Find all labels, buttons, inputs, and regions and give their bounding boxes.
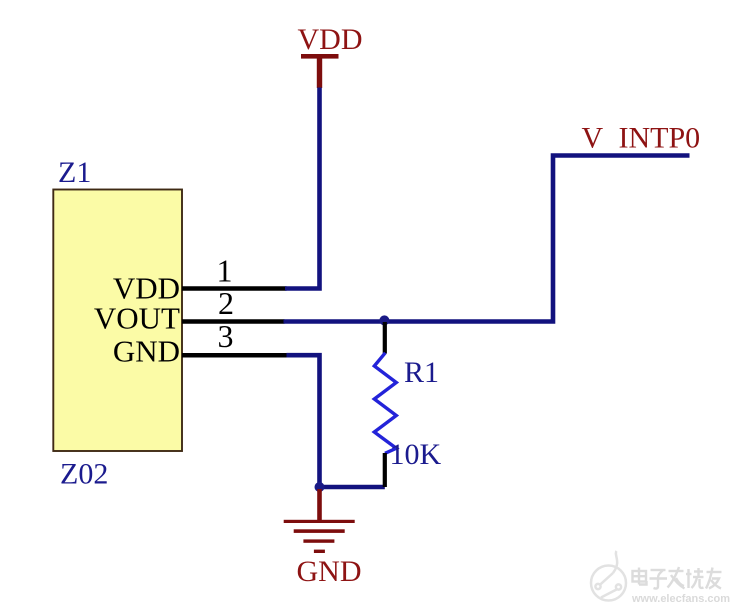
pin 3 (182, 318, 287, 355)
junction dot ground node (315, 482, 325, 492)
svg-text:V: V (582, 122, 604, 155)
ground bar 3 (303, 539, 334, 542)
watermark CJK glyph 2 (zi) (650, 570, 668, 589)
ground stem (317, 489, 322, 520)
svg-text:GND: GND (297, 555, 362, 588)
svg-text:Z02: Z02 (60, 458, 108, 491)
ground bar 1 (284, 520, 355, 523)
watermark CJK glyph 1 (dian) (633, 568, 647, 585)
svg-text:2: 2 (218, 285, 234, 321)
svg-text:R1: R1 (404, 356, 439, 389)
svg-text:VDD: VDD (298, 23, 363, 56)
watermark CJK glyph 5 (you) (706, 568, 722, 589)
svg-text:VOUT: VOUT (94, 301, 180, 336)
power VDD stem (317, 56, 322, 88)
component Z1 body (53, 190, 182, 452)
svg-text:1: 1 (217, 253, 233, 289)
wire pin1 to VDD (285, 88, 320, 289)
pin 2 (182, 285, 285, 322)
resistor R1 bottom lead (383, 453, 387, 487)
svg-text:GND: GND (113, 334, 180, 369)
svg-text:10K: 10K (390, 438, 442, 471)
svg-text:Z1: Z1 (58, 156, 91, 189)
watermark CJK glyph 3 (fa) (668, 567, 685, 589)
wire VOUT net to V_INTP0 (284, 156, 690, 322)
resistor R1 body (374, 353, 396, 454)
wire resistor bottom to ground node (320, 485, 385, 490)
watermark logo circle (591, 551, 626, 601)
svg-text:3: 3 (218, 318, 234, 354)
power VDD bar (301, 54, 339, 59)
ground bar 4 (314, 550, 325, 553)
net label V_INTP0 (582, 122, 701, 155)
watermark CJK glyph 4 (shao) (686, 568, 704, 588)
svg-text:INTP0: INTP0 (619, 122, 701, 155)
junction dot VOUT / R1 (379, 315, 389, 325)
ground bar 2 (294, 529, 345, 533)
pin 1 (182, 253, 287, 289)
wire pin3 down to ground node (287, 355, 320, 487)
resistor R1 top lead (383, 322, 387, 354)
svg-text:www.elecfans.com: www.elecfans.com (631, 593, 730, 605)
